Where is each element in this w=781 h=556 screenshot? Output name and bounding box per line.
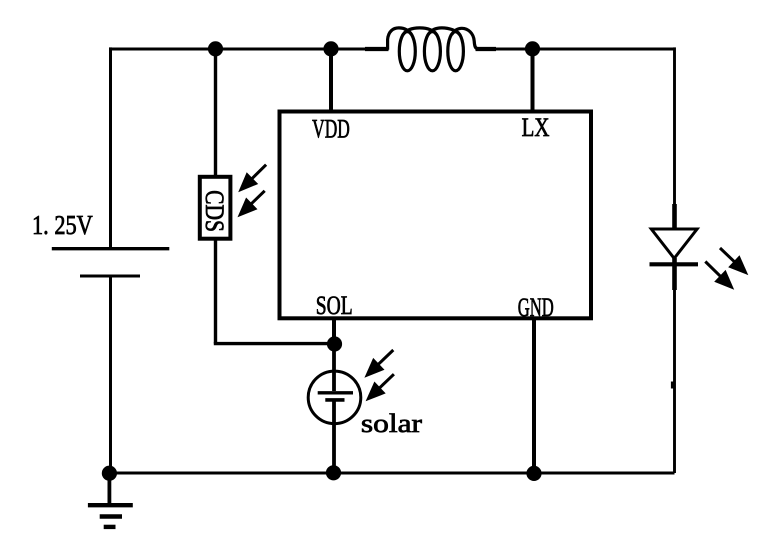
inductor L1 left lead stub [365,47,389,51]
battery BT1 positive plate [52,247,170,250]
LED D1 anode stub [672,204,677,231]
light arrows into CDS [238,165,267,218]
ground symbol [88,473,133,527]
svg-text:1. 25V: 1. 25V [32,210,93,240]
pin SOL wire [332,317,336,344]
svg-text:GND: GND [518,293,554,322]
wire CDS lower lead down [214,239,217,344]
wire right vertical upper (top rail to LED anode) [673,47,676,208]
svg-text:VDD: VDD [312,114,350,143]
wire right vertical lower (LED cathode to bottom rail) [673,286,676,473]
solar cell circle [308,371,361,424]
LED D1 triangle [651,229,697,258]
wire overlap tick on right vertical [671,382,675,389]
node LX junction [525,41,540,56]
wire top rail left segment (battery to inductor) [109,48,388,51]
solar cell long plate [318,391,353,394]
pin GND wire [532,317,536,473]
wire CDS to SOL node horizontal [214,342,335,345]
inductor L1 right lead stub [476,47,497,51]
svg-text:solar: solar [361,409,423,438]
wire top rail right segment (inductor to top-right corner) [476,48,675,51]
node solar bottom junction [326,465,341,480]
wire left vertical (battery positive lead) [109,47,112,248]
svg-text:CDS: CDS [200,190,229,232]
solar cell wire into top plate [332,344,336,391]
light arrows into solar cell [364,350,394,401]
node ground junction [102,466,117,481]
svg-text:SOL: SOL [316,291,353,320]
solar cell wire from bottom plate [332,402,336,474]
node SOL junction [327,336,342,351]
battery BT1 negative plate [80,275,140,278]
node VDD junction [323,41,338,56]
node CDS top junction [208,41,223,56]
wire CDS upper lead [214,47,217,177]
wire bottom rail [109,472,675,475]
light arrows out of LED [705,248,748,290]
LED D1 cathode stub [672,258,677,290]
inductor L1 coil [388,28,478,71]
pin VDD wire [329,49,333,113]
solar cell short plate [325,398,344,402]
svg-text:LX: LX [522,113,550,142]
node GND bottom junction [526,466,541,481]
IC U1 body [280,112,592,319]
pin LX wire [531,49,535,113]
wire battery negative lead down to bottom rail [109,276,112,473]
LED D1 cathode bar [650,262,699,266]
resistor CDS body [200,177,231,239]
